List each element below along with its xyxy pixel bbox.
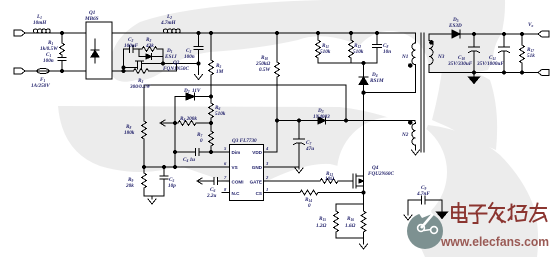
svg-text:1.2Ω: 1.2Ω [316, 223, 326, 229]
resistor R10 [275, 33, 280, 121]
ground arrow C9 left [404, 215, 412, 220]
svg-text:35V/330uF: 35V/330uF [447, 61, 473, 67]
node R4/R6 [209, 121, 212, 124]
svg-text:43k: 43k [145, 43, 154, 49]
wire VS line [144, 166, 229, 168]
wire [49, 70, 86, 72]
input terminal bottom [14, 68, 37, 74]
resistor R4 with left arrow [160, 120, 211, 126]
transformer N2 winding [412, 121, 416, 151]
svg-text:COMI: COMI [232, 180, 244, 185]
wire bridge out bottom [112, 70, 133, 72]
node C1 bottom [60, 69, 63, 72]
vertical wire D2 left [174, 97, 176, 168]
wire bridge out top [112, 32, 163, 34]
svg-text:GATE: GATE [250, 180, 262, 185]
resistor R11 [316, 33, 321, 63]
svg-text:GND: GND [252, 165, 263, 170]
svg-text:1N4003: 1N4003 [313, 114, 330, 120]
VDD wire pin4 [264, 121, 277, 153]
svg-text:300/0.5W: 300/0.5W [129, 84, 151, 90]
snubber bottom line [318, 62, 377, 64]
svg-text:ES3D: ES3D [448, 23, 462, 29]
svg-text:10n: 10n [383, 49, 391, 55]
svg-text:N1: N1 [401, 54, 409, 60]
svg-text:510k: 510k [215, 111, 226, 117]
node R8/R9 VS junction [142, 165, 145, 168]
svg-text:0: 0 [308, 203, 311, 209]
transistor Q4 [353, 93, 364, 204]
svg-text:510k: 510k [320, 49, 331, 55]
svg-text:N2: N2 [401, 132, 409, 138]
svg-text:4.7nF: 4.7nF [416, 191, 430, 197]
wire top rail [180, 32, 416, 34]
svg-text:100nF: 100nF [124, 43, 139, 49]
diode D4 [359, 63, 368, 93]
node R7 / Dim pin junction [209, 150, 212, 153]
svg-text:100n: 100n [43, 58, 54, 64]
node N3 dot [430, 41, 434, 45]
node D2 cathode [209, 95, 212, 98]
resistor R7 [209, 131, 214, 152]
capacitor C10 polarized [469, 32, 480, 72]
svg-text:R4 200k: R4 200k [180, 116, 197, 122]
svg-text:47u: 47u [305, 146, 314, 152]
svg-text:RS1M: RS1M [370, 78, 384, 84]
node CS / Q4 source junction [362, 191, 365, 194]
capacitor C7 polarized [294, 121, 305, 168]
output terminal top [536, 31, 549, 37]
resistor R17 [520, 32, 525, 74]
resistor R2 [142, 47, 163, 52]
resistor R8 [142, 85, 147, 167]
node bottom rail junction [122, 70, 125, 73]
resistor R1 [60, 33, 65, 58]
node VDD / aux line [275, 119, 278, 122]
resistor R9 [142, 167, 165, 196]
resistor R3 in bottom rail [133, 69, 177, 74]
inductor L1 [33, 29, 50, 33]
svg-text:10Ω: 10Ω [325, 176, 334, 182]
svg-text:Dim: Dim [232, 150, 241, 155]
svg-text:1A/250V: 1A/250V [31, 83, 50, 89]
svg-text:51k: 51k [527, 53, 535, 59]
capacitor C6 with left arrow (COMI) [197, 178, 229, 185]
inductor L2 [163, 29, 180, 33]
capacitor C11 [499, 32, 510, 74]
node D1/drain line junction [162, 62, 165, 65]
ground arrow GND [295, 168, 303, 173]
node R4 left junction [173, 121, 176, 124]
transformer N1 winding [412, 33, 416, 93]
svg-text:510k: 510k [353, 49, 364, 55]
node R10 top [275, 31, 278, 34]
node R1 top [60, 31, 63, 34]
svg-text:35V/1000uF: 35V/1000uF [476, 61, 504, 67]
IC Q3 FL7730 controller [230, 145, 264, 201]
GND wire pin3 [264, 166, 299, 168]
bridge rectifier Q1 [86, 22, 112, 79]
fuse F1 [37, 68, 49, 73]
node line VS-R8 horizontal [144, 84, 346, 86]
node R12 top [349, 31, 352, 34]
resistor R5 [209, 31, 214, 96]
node R11 top [316, 31, 319, 34]
svg-text:4.7mH: 4.7mH [160, 20, 177, 26]
GATE wire + resistor R13 [264, 179, 353, 184]
node C7 top [297, 119, 300, 122]
node VS-line / aux junction [344, 119, 347, 122]
diode D5 [429, 30, 536, 38]
capacitor C8 [373, 33, 382, 63]
svg-text:CS: CS [256, 191, 262, 196]
svg-text:VS: VS [232, 165, 238, 170]
node C3 top [197, 31, 200, 34]
svg-text:2.2u: 2.2u [206, 193, 216, 199]
ground arrow C9 right solid [437, 212, 448, 219]
node N2 dot [408, 121, 412, 125]
svg-text:0.5W: 0.5W [259, 67, 270, 73]
resistor R12 [349, 33, 354, 63]
snubber cluster: vertical left [123, 49, 125, 71]
svg-text:11V: 11V [192, 88, 201, 94]
node C3 / drain line [197, 62, 200, 65]
svg-text:1: 1 [266, 187, 268, 192]
node N1 dot [408, 64, 412, 68]
resistor R6 [209, 97, 214, 132]
capacitor C3 [194, 33, 203, 75]
node D4 anode / drain [362, 91, 365, 94]
svg-text:20k: 20k [125, 183, 134, 189]
svg-text:FQN1N50C: FQN1N50C [163, 66, 189, 72]
ground arrow C3 [195, 75, 203, 80]
resistors R15 R16 parallel [334, 204, 367, 244]
capacitor C2 [124, 46, 143, 53]
node C4 left junction [173, 150, 176, 153]
node Q2 source junction [122, 66, 125, 69]
ground arrow solid secondary [472, 71, 475, 74]
N.C stub [222, 192, 229, 194]
capacitor C1 [58, 58, 66, 72]
svg-text:N3: N3 [437, 54, 445, 60]
node D4 cathode [362, 61, 365, 64]
capacitor C4 [175, 149, 229, 156]
svg-text:C4 1u: C4 1u [183, 157, 195, 163]
svg-text:180k: 180k [124, 130, 135, 136]
CS wire + resistor R14 [264, 190, 364, 195]
input terminal top [14, 30, 33, 36]
svg-text:100n: 100n [184, 54, 195, 60]
transistor Q2 [124, 61, 199, 71]
output bottom line [429, 72, 536, 74]
ground arrow R15/R16 [360, 244, 368, 249]
svg-text:10p: 10p [168, 183, 176, 189]
capacitor C5 [0, 0, 1, 1]
node VS line left junction [173, 165, 176, 168]
node C8 top [375, 31, 378, 34]
ground arrow R9/C5 [151, 196, 153, 199]
capacitor C9 Y-cap [408, 196, 442, 215]
svg-text:MB6S: MB6S [84, 16, 99, 22]
svg-text:www.elecfans.com: www.elecfans.com [440, 234, 549, 249]
svg-text:1M: 1M [216, 69, 224, 75]
svg-text:N.C: N.C [232, 191, 241, 196]
diode D2 zener [175, 93, 211, 100]
transformer core [421, 33, 424, 152]
watermark logo circle [407, 200, 443, 249]
wire N1 bottom to drain [364, 92, 416, 94]
svg-text:0: 0 [200, 138, 203, 144]
svg-text:Q3 FL7730: Q3 FL7730 [232, 138, 257, 144]
svg-text:FQU2N60C: FQU2N60C [368, 171, 394, 177]
watermark chinese text (stylized strokes) [452, 203, 547, 223]
ground arrow N2 [412, 150, 420, 155]
svg-text:10mH: 10mH [33, 20, 47, 26]
svg-text:VDD: VDD [252, 150, 262, 155]
diode D1 [139, 49, 163, 64]
aux line y=120.5 with diode D3 [277, 117, 415, 124]
svg-text:1.6Ω: 1.6Ω [345, 223, 355, 229]
transformer N3 winding [429, 34, 433, 73]
wire [50, 32, 86, 34]
node C5 top [162, 165, 165, 168]
output terminal bottom [536, 70, 549, 76]
